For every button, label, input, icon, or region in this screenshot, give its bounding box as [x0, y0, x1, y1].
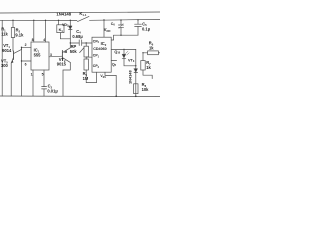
svg-text:9.1k: 9.1k [15, 33, 24, 38]
svg-text:K1-1: K1-1 [79, 11, 87, 17]
node wire relay bottom [60, 38, 70, 40]
svg-text:0.1µ: 0.1µ [142, 27, 151, 32]
capacitor C5 0.1u [137, 20, 139, 24]
transistor VT2 9015 [61, 50, 63, 60]
capacitor C2 0.01u [42, 86, 47, 88]
diode VD3 1N4148 [69, 20, 71, 26]
svg-text:CD4060: CD4060 [93, 47, 107, 51]
relay K1 coil [57, 25, 64, 33]
svg-text:2: 2 [25, 43, 27, 47]
wire pin2-pin6 link [22, 47, 32, 61]
svg-text:3: 3 [50, 53, 52, 57]
ground pin Vss wire [105, 72, 116, 96]
wire VT1 collector to 555 pin2 [22, 46, 32, 48]
wire VT2 collector down to ground [63, 62, 70, 96]
label K1-1 [79, 11, 87, 17]
potentiometer RP 50k [86, 42, 87, 43]
wire Vdd feed [103, 20, 105, 37]
svg-text:VT3: VT3 [128, 58, 135, 63]
switch K1-1 blade [78, 16, 90, 21]
svg-text:1N4148: 1N4148 [128, 70, 133, 84]
node wire y35 [114, 34, 138, 36]
svg-text:10k: 10k [142, 87, 150, 92]
svg-text:6: 6 [25, 63, 27, 67]
capacitor C6 1000u [120, 20, 122, 25]
wire Q10 output [111, 48, 136, 50]
svg-text:50k: 50k [70, 49, 78, 54]
resistor R2 [12, 20, 14, 27]
label VT5 300 [1, 59, 9, 69]
svg-text:C6: C6 [111, 22, 116, 27]
svg-text:CP0: CP0 [93, 39, 100, 44]
capacitor C4 0.68u [78, 40, 80, 46]
pin 3 wire [49, 55, 62, 58]
wire R7 bottom stub [143, 70, 152, 79]
svg-text:0.68µ: 0.68µ [72, 34, 83, 39]
LED VT3 [123, 49, 124, 50]
svg-text:5: 5 [42, 72, 44, 76]
wire VT2 emitter node up [69, 39, 71, 48]
label Vdd [104, 27, 111, 33]
svg-text:VDD: VDD [104, 27, 111, 33]
svg-text:11k: 11k [1, 31, 8, 36]
top border line [0, 12, 160, 13]
pin 6 label [25, 63, 27, 67]
svg-text:300: 300 [1, 63, 9, 68]
resistor R6 1k [143, 52, 148, 54]
svg-text:Q8: Q8 [112, 62, 117, 67]
label 1N4148 [56, 12, 71, 17]
svg-text:1: 1 [31, 72, 33, 76]
resistor R1 label [1, 27, 8, 37]
V+ rail (line 2) left segment [0, 19, 77, 21]
svg-text:4: 4 [43, 38, 45, 42]
pin 8 wire [33, 20, 35, 42]
wire left edge vertical [1, 20, 3, 96]
transistor VT1 9014 [13, 51, 15, 60]
svg-text:CP1: CP1 [93, 54, 100, 59]
svg-text:1N4148: 1N4148 [56, 12, 71, 17]
svg-text:IC2: IC2 [101, 41, 107, 47]
svg-text:K1: K1 [59, 27, 64, 33]
svg-text:1k: 1k [146, 65, 151, 70]
pin 2 label [25, 43, 27, 47]
wire link down to ground [21, 61, 23, 96]
svg-text:0.01µ: 0.01µ [47, 89, 58, 94]
pin 1 wire to ground [32, 70, 34, 96]
wire Q8 stub [111, 59, 116, 61]
pin 4 wire [45, 20, 47, 42]
wire VT1 emitter to ground [10, 63, 12, 96]
V+ rail right segment [90, 18, 161, 21]
svg-text:CP2: CP2 [93, 64, 100, 69]
op-amp/timer IC1 555 box [31, 42, 49, 70]
svg-text:555: 555 [34, 52, 42, 57]
diode 1N4148 vertical [134, 69, 138, 73]
svg-text:VD3: VD3 [62, 23, 69, 28]
resistor R7 1k [142, 53, 144, 61]
svg-text:1k: 1k [149, 45, 154, 50]
wire output vertical [135, 49, 137, 96]
svg-text:9014: 9014 [2, 48, 12, 53]
wire R5 bottom loop [86, 70, 96, 83]
svg-text:9015: 9015 [57, 61, 67, 66]
resistor R8 10k [134, 84, 138, 94]
wire oscillator top [70, 42, 79, 44]
IC U2 CD4060 box [92, 37, 111, 72]
resistor R5 1M [84, 59, 88, 70]
svg-text:1M: 1M [83, 76, 89, 81]
bottom ground rail [0, 95, 160, 98]
pin 5 wire [43, 70, 45, 86]
svg-text:Q10: Q10 [114, 50, 120, 55]
svg-text:8: 8 [32, 38, 34, 42]
wire RP wiper to IC pin [86, 56, 92, 58]
